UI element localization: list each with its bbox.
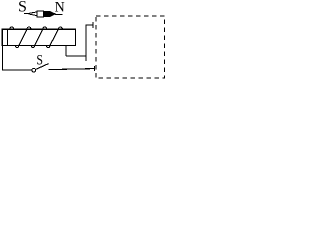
switch S pivot contact (32, 68, 36, 72)
terminal tick lower (at dashed box) (94, 66, 96, 71)
turn wire diagonal 1 (19, 29, 27, 45)
turn arc top 3 (43, 27, 47, 29)
needle right tip wire (55, 14, 63, 16)
compass needle (24, 11, 63, 17)
coil L1 (2, 27, 75, 48)
coil left cap line (6, 29, 8, 45)
turn wire diagonal 2 (35, 29, 43, 45)
wire: bottom rail right (49, 69, 95, 70)
wire: coil right lead down (65, 46, 67, 57)
turn arc bottom 3 (47, 46, 50, 48)
needle left tip wire (24, 13, 30, 15)
wire: riser up (with overshoot below joint) (85, 25, 87, 62)
turn arc top 2 (27, 27, 31, 29)
turn arc top 4 (58, 27, 62, 29)
switch blade (open) (36, 64, 49, 70)
svg-text:S: S (36, 51, 43, 67)
wire: coil left lead down (2, 46, 4, 71)
terminal tick upper (at dashed box) (92, 22, 94, 28)
svg-text:N: N (55, 0, 66, 16)
wire: bottom rail left (3, 69, 32, 71)
needle white wedge (S half) lower line (29, 14, 37, 16)
needle pivot box (37, 11, 44, 17)
needle black head (N half) (44, 11, 56, 16)
wire: top horizontal into box (86, 24, 93, 26)
coil body rectangle (2, 29, 75, 45)
dashed box (battery placeholder) (96, 16, 165, 78)
turn arc bottom 1 (15, 46, 18, 48)
turn arc top 1 (10, 27, 14, 29)
turn wire diagonal 3 (50, 29, 59, 45)
needle white wedge (S half) upper line (29, 12, 37, 14)
turn arc bottom 2 (31, 46, 34, 48)
wire: horizontal to riser (66, 55, 86, 57)
